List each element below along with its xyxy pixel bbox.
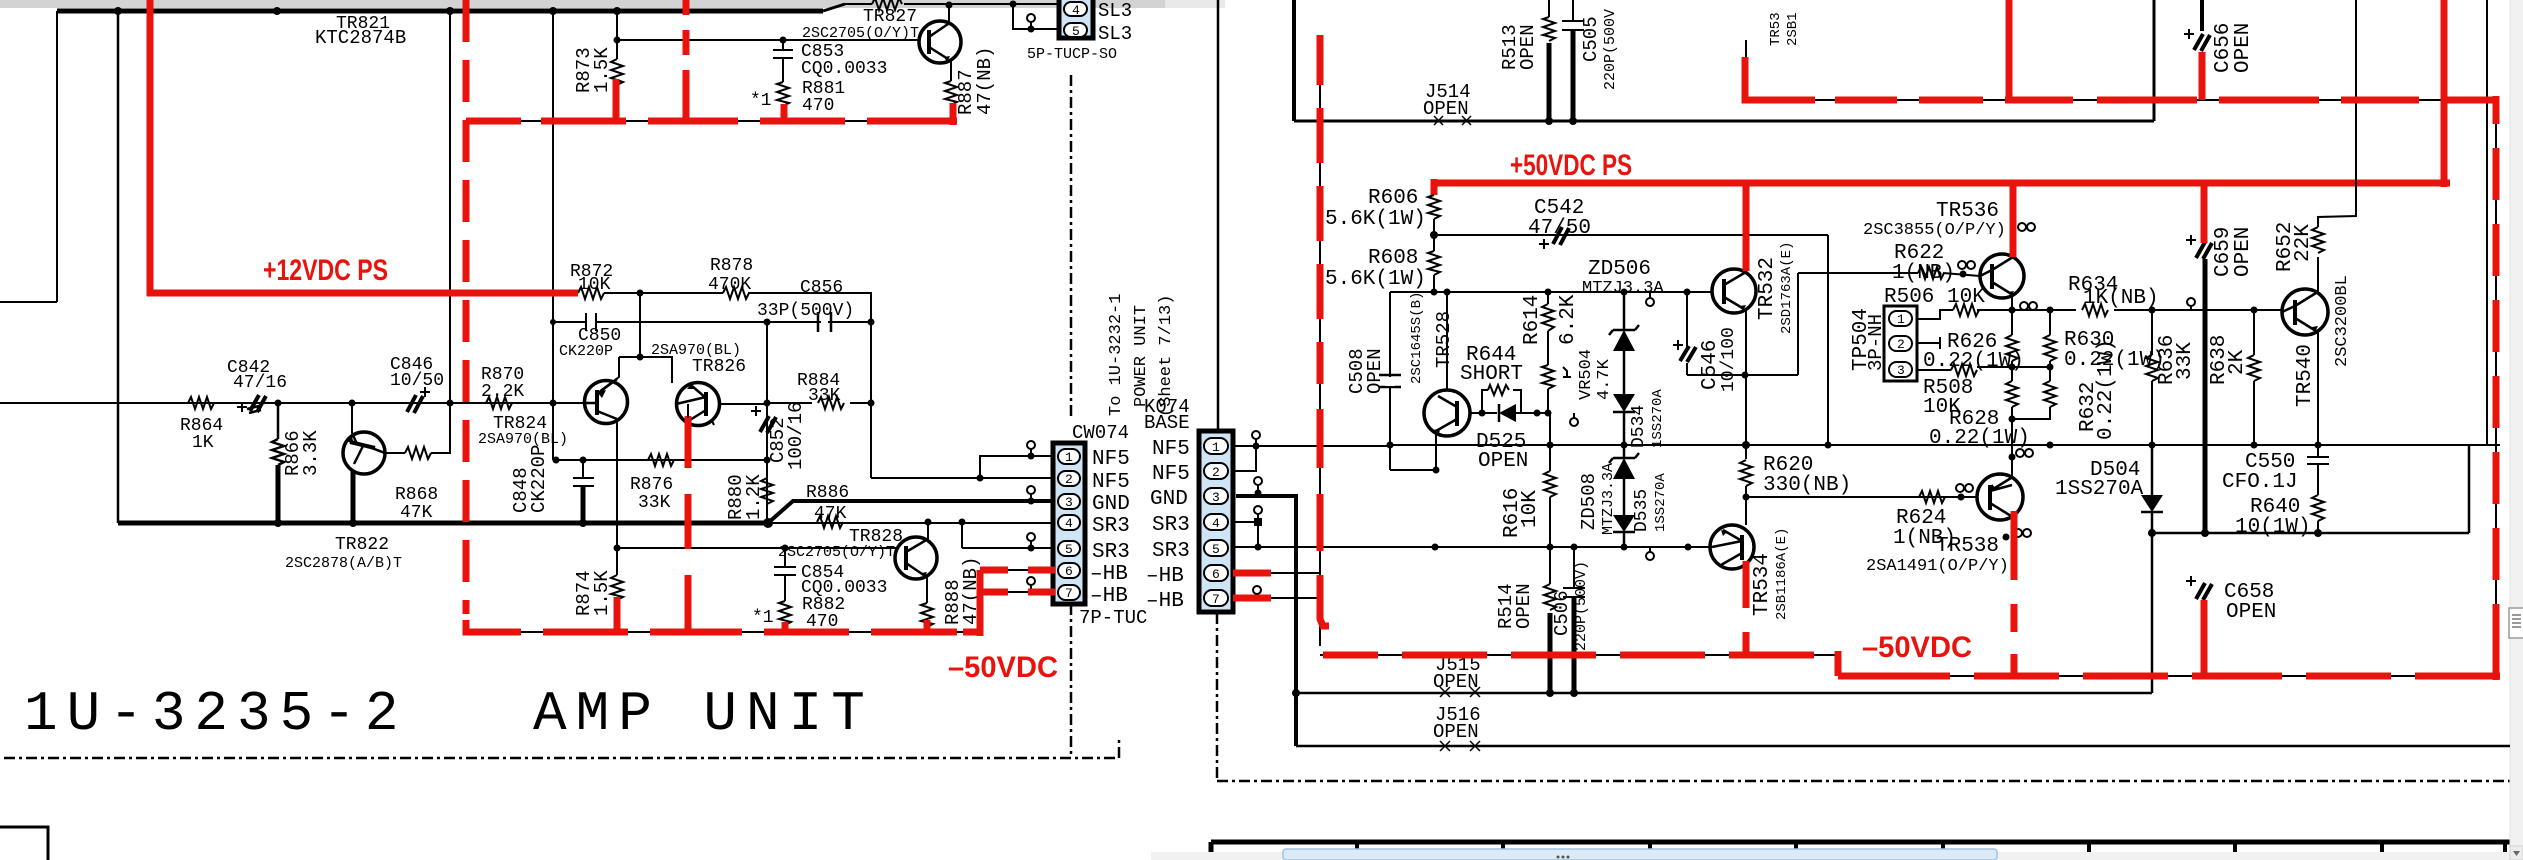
connector CK074	[1199, 431, 1233, 612]
nodes on SR3 rail y547	[1432, 544, 1439, 551]
wire base rail y292	[1390, 291, 1712, 293]
resistor R864	[188, 397, 214, 409]
transistor TR532	[1712, 269, 1756, 313]
resistor R874	[611, 548, 623, 600]
resistor R866	[272, 403, 284, 523]
wire pin6 pin7 -HB	[1237, 573, 1320, 598]
svg-text:R886: R886	[806, 483, 849, 503]
zener ZD506	[1609, 292, 1639, 335]
diode D525	[1499, 404, 1516, 422]
black wire under -HB top bus	[468, 120, 953, 122]
wire pin6/pin7 black under red	[980, 570, 1053, 592]
red riser to -HB pins	[980, 570, 1008, 636]
svg-text:OPEN: OPEN	[2232, 23, 2255, 73]
TR538 collector column x2012	[2011, 445, 2013, 478]
red dashed -50V bus y632	[466, 620, 980, 632]
TR532 emitter column	[1745, 309, 1747, 525]
svg-text:1.5K: 1.5K	[591, 47, 613, 93]
zener ZD508	[1609, 445, 1639, 463]
resistor R872	[578, 287, 604, 299]
capacitor C850	[553, 313, 871, 331]
wire vertical x767 down to R884 rail	[766, 322, 768, 523]
resistor R887	[945, 81, 957, 105]
svg-text:6: 6	[1065, 564, 1073, 579]
resistor R868	[405, 403, 450, 459]
sheet1 right border (dash-dot)	[1070, 75, 1073, 757]
red dashed -HB vertical x1320	[1320, 35, 1329, 626]
connector CW074 7P-TUC	[1053, 443, 1085, 604]
red stub R888 to bus	[924, 620, 931, 632]
svg-text:SHORT: SHORT	[1460, 363, 1523, 386]
svg-text:100/16: 100/16	[785, 402, 807, 470]
wire: GND diagonal and rail to pin3	[768, 501, 1053, 523]
svg-text:6: 6	[1212, 567, 1220, 582]
resistor R636	[2146, 310, 2158, 445]
svg-text:4: 4	[1065, 516, 1073, 531]
svg-text:2SD1763A(E): 2SD1763A(E)	[1779, 242, 1795, 334]
thick black column below C659	[2203, 259, 2208, 533]
red C659 stub	[2201, 183, 2208, 243]
wire: jog to thin top rail	[823, 4, 845, 11]
transistor TR828	[895, 537, 937, 579]
sheet1 bottom border (dash-dot)	[4, 740, 1119, 758]
wire: vertical x617 top to base rail	[616, 11, 618, 40]
node y403 x553	[550, 400, 557, 407]
svg-text:To 1U-3232-1: To 1U-3232-1	[1107, 294, 1126, 416]
svg-text:10K: 10K	[1519, 490, 1542, 528]
red TR534 emitter	[1743, 561, 1750, 655]
svg-text:+12VDC PS: +12VDC PS	[263, 254, 388, 287]
red stub R882 to bus	[782, 622, 789, 632]
red C658 stub	[2201, 600, 2208, 676]
J514 wire y121	[1294, 0, 2154, 121]
wire pin1/pin2 NF5 rails	[871, 456, 1053, 478]
svg-text:CFO.1J: CFO.1J	[2222, 471, 2298, 494]
resistor R638	[2248, 310, 2260, 445]
wire: emitter/ground thick bus y523	[118, 521, 768, 526]
svg-text:2.2K: 2.2K	[481, 382, 524, 402]
svg-text:CK220P: CK220P	[559, 343, 613, 360]
wire: TR827 base rail y40	[617, 39, 918, 41]
bottom ruler line of next page	[1211, 840, 2510, 845]
thick corner top-left of sheet2	[1292, 0, 1296, 121]
svg-text:R614: R614	[1521, 295, 1544, 345]
resistor R506	[1917, 310, 2050, 319]
emitter resistor grid columns	[2047, 307, 2054, 314]
wire TR827 emitter to R887	[950, 60, 952, 81]
svg-text:–HB: –HB	[1090, 563, 1128, 586]
diode D535	[1613, 479, 1635, 547]
svg-text:TR528: TR528	[1433, 311, 1455, 368]
transistor TR534	[1710, 525, 1754, 569]
svg-text:POWER UNIT: POWER UNIT	[1132, 305, 1151, 407]
resistor R514	[1544, 547, 1556, 610]
svg-text:OPEN: OPEN	[1433, 721, 1479, 743]
svg-text:1SS270A: 1SS270A	[2055, 478, 2144, 501]
svg-text:5: 5	[1212, 542, 1220, 557]
pin2 stub	[1917, 337, 1940, 349]
svg-text:2SA1491(O/P/Y): 2SA1491(O/P/Y)	[1866, 557, 2009, 576]
transistor TR538	[1977, 474, 2023, 520]
+50V red rail y183	[1431, 179, 2448, 195]
node GND junction	[763, 518, 773, 528]
transistor TR540	[2282, 289, 2328, 335]
svg-text:47K: 47K	[400, 503, 433, 523]
svg-text:NF5: NF5	[1152, 463, 1190, 486]
capacitor C508	[1379, 375, 1401, 387]
black wire under -50V bus y632	[468, 631, 980, 633]
svg-text:0.22(1W): 0.22(1W)	[1929, 427, 2030, 450]
svg-text:4: 4	[1212, 516, 1220, 531]
svg-text:NF5: NF5	[1152, 438, 1190, 461]
wire: top thick rail	[57, 9, 823, 14]
svg-text:2SA970(BL): 2SA970(BL)	[478, 431, 568, 448]
svg-text:220P(500V: 220P(500V	[1602, 9, 1619, 90]
svg-text:33K: 33K	[808, 386, 841, 406]
wire TR827 collector	[948, 5, 950, 24]
wire pin3 GND thick	[1236, 496, 1296, 746]
wire R624 rail y497	[1746, 496, 1977, 498]
svg-text:–50VDC: –50VDC	[948, 651, 1058, 684]
svg-text:SR3: SR3	[1152, 514, 1190, 537]
wire y293 R872-R878 rail	[604, 293, 871, 322]
connector SL3 5P-TUCP	[1059, 0, 1093, 38]
wire x1390 vertical (C508 column)	[1389, 292, 1391, 470]
J516 cut marks	[1440, 741, 1480, 751]
svg-text:2: 2	[1212, 465, 1220, 480]
scrollbar bottom-right corner button	[2510, 846, 2523, 860]
svg-text:TR536: TR536	[1936, 200, 1999, 223]
svg-text:C506: C506	[1551, 590, 1573, 636]
svg-text:CK220P: CK220P	[528, 445, 550, 513]
rotated note: To 1U-3232-1 POWER UNIT (Sheet 7/13)	[1107, 294, 1176, 417]
node y403 x450	[447, 400, 454, 407]
svg-text:TR827: TR827	[863, 7, 917, 27]
node top rail x277	[273, 7, 281, 15]
resistor R628	[2006, 381, 2018, 445]
svg-text:TR540: TR540	[2294, 344, 2317, 407]
J515 GND wire y693	[1296, 692, 2152, 695]
vertical scrollbar track	[2510, 0, 2523, 860]
wire: left vertical x118	[117, 11, 120, 523]
capacitor C848	[573, 460, 594, 486]
svg-text:2SC3200BL: 2SC3200BL	[2333, 275, 2352, 367]
svg-text:10/50: 10/50	[390, 371, 444, 391]
red dashed vertical x466	[463, 0, 470, 614]
wire y548 C854 rail	[617, 547, 896, 549]
svg-text:ZD508: ZD508	[1578, 473, 1600, 530]
wire pin1 NF5 long rail y446	[1233, 445, 1390, 447]
J516 wire y750	[1296, 745, 2510, 748]
svg-text:*1: *1	[752, 608, 774, 628]
resistor R508	[1917, 367, 2050, 370]
resistor R620	[1740, 460, 1752, 486]
diode D504	[2141, 445, 2163, 533]
svg-text:SR3: SR3	[1152, 540, 1190, 563]
svg-text:33K: 33K	[2174, 342, 2197, 380]
red feeder x2444	[2444, 0, 2450, 187]
transistor TR827	[919, 21, 961, 63]
capacitor C842 (electrolytic)	[247, 395, 266, 413]
svg-text:0.22(1W): 0.22(1W)	[2095, 339, 2118, 440]
svg-text:C505: C505	[1580, 16, 1602, 62]
red stubs at pins 6,7	[1028, 570, 1055, 592]
wire TR824 collector column	[616, 419, 618, 548]
svg-text:2SC2878(A/B)T: 2SC2878(A/B)T	[285, 555, 402, 572]
J514 cut marks	[1434, 116, 1471, 125]
svg-text:1.2K: 1.2K	[743, 474, 765, 520]
svg-text:BASE: BASE	[1144, 412, 1190, 434]
svg-text:MTZJ3.3A: MTZJ3.3A	[1600, 463, 1617, 535]
svg-text:R608: R608	[1368, 247, 1418, 270]
svg-text:220P(500V): 220P(500V)	[1573, 561, 1590, 651]
svg-text:TR53: TR53	[1768, 12, 1784, 46]
svg-text:ZD506: ZD506	[1588, 258, 1651, 281]
svg-text:47K: 47K	[814, 504, 847, 524]
svg-text:2: 2	[1065, 472, 1073, 487]
svg-text:1: 1	[1212, 440, 1220, 455]
svg-text:SR3: SR3	[1092, 515, 1130, 538]
resistor R880	[761, 460, 773, 523]
black underlay right red vertical	[2495, 100, 2497, 676]
svg-text:22K: 22K	[2292, 224, 2315, 262]
resistor R886	[817, 516, 843, 528]
svg-text:C856: C856	[800, 278, 843, 298]
resistor R882	[779, 601, 791, 625]
svg-text:47/50: 47/50	[1528, 217, 1591, 240]
svg-text:SL3: SL3	[1098, 23, 1132, 45]
pin net labels CK074	[1146, 438, 1190, 613]
capacitor C659	[2196, 242, 2212, 259]
transistor TR822	[351, 403, 353, 433]
wire x2487 right vertical	[2486, 0, 2488, 445]
svg-text:OPEN: OPEN	[1433, 671, 1479, 693]
node y403 x352	[349, 400, 356, 407]
node y403 x278	[275, 400, 282, 407]
wire: left vertical stub x57	[0, 11, 57, 302]
wire x1828 vertical	[1827, 235, 1829, 445]
capacitor C505	[1562, 0, 1584, 30]
resistor R640	[2312, 495, 2324, 533]
red dashed -50V bus sheet2 right	[1838, 673, 2474, 680]
svg-text:OPEN: OPEN	[1364, 348, 1386, 394]
svg-text:R868: R868	[395, 485, 438, 505]
resistor R614	[1542, 292, 1554, 365]
svg-text:+50VDC PS: +50VDC PS	[1510, 149, 1632, 182]
svg-text:1U-3235-2: 1U-3235-2	[24, 682, 407, 746]
wire y533 rail	[2152, 445, 2469, 533]
transistor TR824	[584, 379, 628, 424]
svg-text:7P-TUC: 7P-TUC	[1079, 607, 1147, 629]
svg-text:KTC2874B: KTC2874B	[315, 27, 406, 49]
svg-text:OPEN: OPEN	[2226, 601, 2276, 624]
svg-text:SR3: SR3	[1092, 541, 1130, 564]
transistor TR528	[1446, 292, 1448, 391]
svg-text:GND: GND	[1092, 493, 1130, 516]
red dashed vertical x2496	[2493, 96, 2500, 650]
svg-text:TR826: TR826	[692, 357, 746, 377]
svg-text:1(NB): 1(NB)	[1892, 262, 1955, 285]
svg-text:33P(500V): 33P(500V)	[757, 301, 854, 321]
svg-text:–50VDC: –50VDC	[1862, 631, 1972, 664]
resistor R876	[648, 454, 674, 466]
capacitor C546 (electrolytic)	[1686, 292, 1688, 375]
wire TR824 emitter to R872 node	[600, 293, 640, 391]
red TR536 collector	[2010, 183, 2017, 257]
SL3 pickup wires	[1013, 4, 1059, 29]
svg-text:4.7K: 4.7K	[1595, 358, 1614, 400]
svg-text:CQ0.0033: CQ0.0033	[801, 59, 887, 79]
resistor R878	[723, 287, 749, 299]
wire pin5 SR3 long rail y547	[1233, 546, 1712, 548]
capacitor C852 (electrolytic)	[760, 416, 776, 433]
svg-text:–HB: –HB	[1090, 585, 1128, 608]
svg-text:5.6K(1W): 5.6K(1W)	[1325, 208, 1426, 231]
wire TR540 base rail y310	[2050, 309, 2282, 311]
resistor R632	[2012, 367, 2056, 419]
svg-text:2K: 2K	[2226, 349, 2249, 375]
svg-text:3.3K: 3.3K	[300, 430, 322, 476]
resistor R652	[2312, 0, 2356, 293]
connector TP504 3P-NH	[1884, 306, 1917, 381]
resistor R888	[921, 603, 933, 627]
resistor R873	[611, 40, 623, 85]
svg-text:–HB: –HB	[1146, 565, 1184, 588]
TR536 emitter column x2012	[2011, 295, 2013, 335]
node top rail x118	[114, 7, 122, 15]
wire C546 bottom to R622 riser	[1687, 273, 1798, 375]
node x1434 y235	[1430, 231, 1438, 239]
svg-text:–HB: –HB	[1146, 590, 1184, 613]
TR528 emitter wire	[1390, 434, 1436, 470]
red TR826 emitter trace	[685, 416, 692, 632]
svg-text:1: 1	[1065, 450, 1073, 465]
svg-text:0.22(1W): 0.22(1W)	[1923, 350, 2024, 373]
red dashed -HB top bus y121	[466, 118, 953, 125]
node pin3 testpoint	[1028, 498, 1035, 505]
sheet2 bottom border (dash-dot)	[1217, 780, 2510, 783]
node x783 y40	[780, 37, 787, 44]
wire TR828 emitter to R888	[926, 576, 928, 603]
svg-text:7: 7	[1065, 586, 1073, 601]
svg-text:D534: D534	[1629, 405, 1649, 448]
svg-text:3: 3	[1065, 495, 1073, 510]
wire pin5 riser x962	[961, 522, 963, 548]
svg-text:2SC2705(O/Y)T: 2SC2705(O/Y)T	[778, 544, 895, 561]
svg-text:1SS270A: 1SS270A	[1650, 389, 1666, 448]
red dashed -50V bus sheet2 left	[1323, 652, 1841, 659]
svg-text:10/100: 10/100	[1719, 327, 1739, 392]
transistor TR536	[1980, 254, 2024, 298]
svg-text:NF5: NF5	[1092, 471, 1130, 494]
svg-text:SL3: SL3	[1098, 0, 1132, 22]
wire: SR3 rail y522 to pin4	[768, 522, 1053, 524]
svg-text:GND: GND	[1150, 488, 1188, 511]
R644 SHORT loop	[1470, 390, 1549, 413]
wire vertical x871 down to pin2	[870, 322, 872, 478]
wire pin2 to pin1	[1233, 446, 1256, 471]
svg-text:3: 3	[1897, 363, 1905, 378]
open pin marker below rail	[1649, 292, 1651, 297]
red stub R874 to bus	[614, 597, 621, 632]
svg-text:6.2K: 6.2K	[1557, 294, 1580, 345]
svg-text:R506 10K: R506 10K	[1884, 286, 1985, 309]
black underlay of -HB top bus	[1765, 99, 2496, 101]
svg-text:TR532: TR532	[1756, 257, 1779, 320]
resistor R616	[1544, 413, 1556, 547]
svg-text:TR538: TR538	[1936, 535, 1999, 558]
red corner x2496 bottom	[2448, 632, 2500, 680]
svg-text:10K: 10K	[578, 275, 611, 295]
bottom-left title block corner	[0, 827, 48, 860]
TR540 emitter to rail	[2317, 330, 2319, 445]
capacitor C656	[2200, 0, 2204, 31]
svg-text:OPEN: OPEN	[1478, 450, 1528, 473]
resistor R881	[777, 82, 789, 106]
resistor R626	[2006, 335, 2018, 381]
svg-text:*1: *1	[750, 91, 772, 111]
svg-text:4: 4	[1072, 3, 1080, 18]
capacitor C853	[773, 40, 793, 82]
capacitor C854	[774, 548, 796, 601]
svg-text:33K: 33K	[638, 493, 671, 513]
pin net labels CW074	[1090, 448, 1130, 608]
wire C542 rail y235	[1434, 234, 1828, 236]
svg-text:CW074: CW074	[1072, 422, 1129, 444]
svg-text:OPEN: OPEN	[1423, 98, 1469, 120]
wire pin4 stub	[1233, 522, 1258, 548]
wire: vertical x450 top-to-signal	[449, 11, 451, 403]
resistor (unlabeled) on top rail	[872, 0, 902, 10]
svg-text:NF5: NF5	[1092, 448, 1130, 471]
svg-text:5: 5	[1072, 24, 1080, 39]
svg-text:2: 2	[1897, 337, 1905, 352]
resistor R884	[818, 397, 844, 409]
node x617 y40	[614, 37, 621, 44]
svg-text:7: 7	[1212, 592, 1220, 607]
ruler ticks	[1357, 842, 2505, 858]
resistor R624	[1919, 491, 1945, 503]
wire R884 rail y403	[767, 402, 871, 404]
svg-text:VR504: VR504	[1577, 349, 1596, 400]
resistor R644	[1488, 385, 1509, 395]
wire: main signal rail y403	[0, 402, 584, 404]
svg-text:470: 470	[802, 96, 834, 116]
svg-text:2SC1645S(B): 2SC1645S(B)	[1409, 292, 1425, 384]
svg-text:TR534: TR534	[1751, 553, 1774, 616]
diode D534	[1613, 351, 1635, 445]
svg-text:5.6K(1W): 5.6K(1W)	[1325, 268, 1426, 291]
resistor R630	[2044, 310, 2056, 367]
svg-text:1: 1	[1897, 312, 1905, 327]
top grey band	[0, 0, 1165, 8]
svg-text:1SS270A: 1SS270A	[1653, 473, 1669, 532]
svg-text:1K(NB): 1K(NB)	[2083, 287, 2159, 310]
transistor TR826	[640, 357, 672, 383]
red -HB top bus y100 dashed	[1745, 57, 2496, 100]
wire pin5 rail	[962, 547, 1053, 549]
svg-text:2SC3855(O/P/Y): 2SC3855(O/P/Y)	[1863, 221, 2006, 240]
J515 cut marks	[1440, 687, 1480, 697]
black underlay -50V bus sheet2	[1320, 655, 2496, 676]
sheet2 left border	[1217, 0, 1220, 431]
wire output rail y445	[1390, 444, 2500, 446]
capacitor C542 (electrolytic)	[1553, 227, 1569, 245]
svg-text:330(NB): 330(NB)	[1763, 474, 1851, 497]
horizontal scrollbar strip	[1151, 852, 2523, 860]
vertical scrollbar thumb	[2509, 608, 2523, 638]
svg-text:2SC2705(O/Y)T: 2SC2705(O/Y)T	[802, 25, 919, 42]
